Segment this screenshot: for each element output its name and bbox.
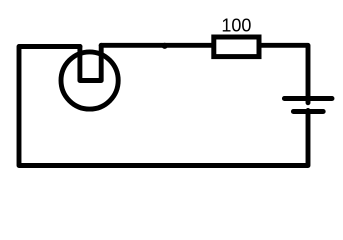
node: junction dot on top wire xyxy=(162,43,168,49)
wire: lamp to resistor xyxy=(101,43,213,48)
battery B1: negative short plate xyxy=(293,109,323,114)
lamp L1: filament U loop xyxy=(80,45,101,80)
wire: main loop (top-left run, left side, bottom run, right side below battery) xyxy=(19,47,308,166)
battery B1: positive long plate xyxy=(284,96,332,101)
svg-text:100: 100 xyxy=(221,16,251,36)
lamp L1: bulb circle xyxy=(61,52,118,109)
resistor R1: box body xyxy=(214,37,259,57)
wire: resistor to top-right corner and down to battery xyxy=(260,45,309,103)
